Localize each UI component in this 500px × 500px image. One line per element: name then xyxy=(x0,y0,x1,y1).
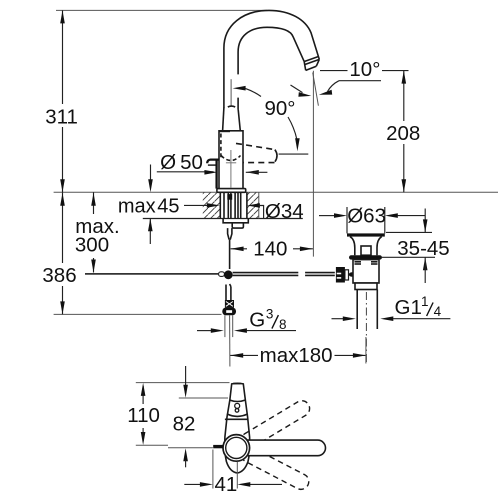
svg-text:Ø63: Ø63 xyxy=(347,204,386,227)
svg-text:1: 1 xyxy=(421,294,429,309)
svg-text:8: 8 xyxy=(279,317,287,332)
svg-text:Ø 50: Ø 50 xyxy=(160,151,203,174)
svg-text:300: 300 xyxy=(75,234,109,257)
svg-text:208: 208 xyxy=(386,122,420,145)
svg-text:G: G xyxy=(249,309,265,332)
svg-text:110: 110 xyxy=(127,404,160,427)
svg-text:140: 140 xyxy=(253,238,287,261)
svg-text:3: 3 xyxy=(266,307,274,322)
svg-text:41: 41 xyxy=(214,473,237,496)
svg-text:4: 4 xyxy=(434,304,442,319)
svg-text:Ø34: Ø34 xyxy=(265,200,304,223)
svg-text:90°: 90° xyxy=(264,97,295,120)
svg-text:82: 82 xyxy=(173,412,196,435)
svg-text:G1: G1 xyxy=(395,296,422,319)
svg-text:max180: max180 xyxy=(260,344,333,367)
svg-text:35-45: 35-45 xyxy=(397,237,449,260)
svg-text:386: 386 xyxy=(42,264,76,287)
svg-text:10°: 10° xyxy=(349,58,380,81)
svg-text:max 45: max 45 xyxy=(118,196,180,218)
svg-text:311: 311 xyxy=(45,105,78,128)
